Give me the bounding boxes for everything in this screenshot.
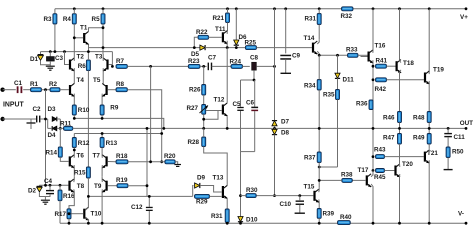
svg-text:R15: R15 [74, 170, 86, 177]
svg-text:R4: R4 [63, 16, 72, 23]
svg-text:R33: R33 [346, 47, 358, 54]
svg-text:R41: R41 [376, 58, 388, 65]
svg-text:T5: T5 [93, 77, 101, 84]
svg-text:T7: T7 [93, 153, 101, 160]
svg-text:R25: R25 [245, 40, 257, 47]
svg-text:T12: T12 [214, 97, 225, 104]
svg-text:R3: R3 [43, 16, 52, 23]
svg-text:R20: R20 [164, 153, 176, 160]
svg-text:T8: T8 [77, 183, 85, 190]
svg-text:R16: R16 [63, 193, 75, 200]
svg-text:R7: R7 [116, 58, 125, 65]
svg-text:C12: C12 [131, 204, 143, 211]
svg-text:R8: R8 [116, 81, 125, 88]
svg-text:T13: T13 [213, 175, 224, 182]
svg-text:D1: D1 [30, 56, 39, 63]
svg-text:R42: R42 [375, 86, 387, 93]
svg-text:R17: R17 [54, 211, 66, 218]
svg-text:R34: R34 [304, 83, 316, 90]
svg-text:C10: C10 [280, 201, 292, 208]
svg-text:R30: R30 [246, 187, 258, 194]
svg-text:R40: R40 [340, 214, 352, 221]
svg-text:R32: R32 [341, 13, 353, 20]
svg-text:T15: T15 [304, 184, 315, 191]
svg-text:R45: R45 [374, 174, 386, 181]
svg-text:R50: R50 [452, 149, 464, 156]
svg-text:R31: R31 [211, 213, 223, 220]
svg-text:T4: T4 [77, 77, 85, 84]
svg-text:V+: V+ [460, 14, 468, 21]
svg-text:C5: C5 [233, 101, 242, 108]
svg-text:D2: D2 [28, 188, 37, 195]
svg-text:R47: R47 [383, 135, 395, 142]
svg-text:T9: T9 [94, 183, 102, 190]
svg-text:R18: R18 [116, 153, 128, 160]
svg-text:R27: R27 [186, 105, 198, 112]
svg-text:R12: R12 [78, 140, 90, 147]
svg-text:T16: T16 [375, 43, 386, 50]
svg-text:T17: T17 [358, 167, 369, 174]
svg-text:R31: R31 [304, 16, 316, 23]
svg-text:T6: T6 [77, 153, 85, 160]
svg-text:D10: D10 [246, 217, 258, 224]
svg-text:C1: C1 [14, 80, 23, 87]
svg-text:T18: T18 [403, 60, 414, 67]
svg-text:R35: R35 [323, 92, 335, 99]
svg-text:R10: R10 [78, 107, 90, 114]
svg-text:D11: D11 [343, 77, 355, 84]
svg-text:R28: R28 [187, 139, 199, 146]
svg-text:R23: R23 [188, 58, 200, 65]
svg-text:R49: R49 [413, 135, 425, 142]
svg-text:C9: C9 [292, 53, 301, 60]
svg-text:D8: D8 [281, 130, 290, 137]
svg-text:R19: R19 [116, 177, 128, 184]
svg-text:R36: R36 [356, 101, 368, 108]
svg-text:R11: R11 [60, 121, 72, 128]
svg-text:R2: R2 [49, 81, 58, 88]
svg-text:C6: C6 [246, 100, 255, 107]
svg-text:INPUT: INPUT [3, 102, 24, 109]
svg-text:R13: R13 [106, 140, 118, 147]
svg-text:C2: C2 [33, 106, 42, 113]
svg-text:T2: T2 [77, 54, 85, 61]
svg-text:D5: D5 [191, 51, 200, 58]
svg-text:R21: R21 [212, 15, 224, 22]
svg-text:T3: T3 [95, 54, 103, 61]
svg-text:R48: R48 [413, 115, 425, 122]
svg-text:T10: T10 [91, 211, 102, 218]
svg-text:T20: T20 [402, 161, 413, 168]
svg-text:R26: R26 [189, 87, 201, 94]
svg-text:R39: R39 [323, 211, 335, 218]
svg-text:R5: R5 [92, 16, 101, 23]
svg-text:C3: C3 [55, 55, 64, 62]
svg-text:C4: C4 [44, 178, 53, 185]
svg-text:V-: V- [458, 211, 464, 218]
svg-text:OUT: OUT [460, 120, 473, 127]
svg-text:R1: R1 [30, 81, 39, 88]
svg-text:C11: C11 [454, 134, 466, 141]
svg-text:C8: C8 [250, 55, 259, 62]
svg-text:R24: R24 [230, 59, 242, 66]
svg-text:R14: R14 [45, 150, 57, 157]
svg-text:T11: T11 [215, 26, 226, 33]
svg-text:D4: D4 [48, 132, 57, 139]
svg-text:R38: R38 [341, 172, 353, 179]
svg-text:T19: T19 [433, 67, 444, 74]
svg-text:R43: R43 [374, 147, 386, 154]
svg-text:R46: R46 [383, 115, 395, 122]
svg-text:D3: D3 [48, 106, 57, 113]
svg-text:R29: R29 [196, 199, 208, 206]
svg-text:R9: R9 [110, 105, 119, 112]
svg-text:D7: D7 [281, 119, 290, 126]
svg-text:T14: T14 [304, 35, 315, 42]
svg-text:R6: R6 [78, 63, 87, 70]
svg-text:D9: D9 [197, 175, 206, 182]
svg-text:R22: R22 [196, 29, 208, 36]
svg-text:C7: C7 [208, 55, 217, 62]
svg-text:T1: T1 [80, 25, 88, 32]
svg-text:R37: R37 [304, 155, 316, 162]
